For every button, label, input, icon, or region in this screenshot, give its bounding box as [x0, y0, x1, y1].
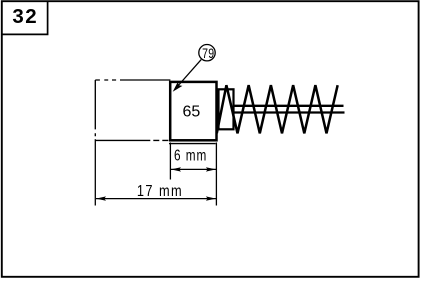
svg-text:32: 32: [12, 5, 38, 28]
figure number box: [2, 1, 48, 34]
spring wire upper line: [233, 105, 343, 107]
spring wire lower line: [233, 111, 344, 113]
dimension extension line left (17mm): [94, 139, 96, 205]
dimension extension line right (shared): [215, 143, 217, 206]
spring seat washer: [219, 89, 234, 129]
brush worn portion phantom outline: left edge: [94, 80, 96, 136]
brush body box (part 65): [170, 82, 216, 140]
svg-text:17 mm: 17 mm: [137, 183, 183, 201]
17mm dimension line: [96, 198, 216, 200]
6mm left arrowhead: [171, 167, 181, 171]
dimension extension line left (6mm): [169, 143, 171, 180]
6mm dimension line: [171, 168, 216, 170]
callout circle 79: [199, 45, 215, 61]
brush worn portion phantom outline: bottom edge: [95, 139, 168, 141]
svg-text:79: 79: [202, 46, 214, 62]
spring coil zigzag: [217, 85, 338, 133]
17mm label: [137, 183, 183, 201]
svg-text:65: 65: [183, 104, 201, 121]
holder edge line under box: [169, 143, 216, 145]
callout leader arrowhead: [173, 82, 183, 92]
17mm left arrowhead: [96, 196, 106, 200]
svg-text:6 mm: 6 mm: [174, 145, 207, 163]
17mm right arrowhead: [206, 196, 216, 200]
callout text 79: [202, 46, 214, 62]
callout leader line: [177, 60, 202, 88]
6mm label: [174, 145, 207, 163]
brush worn portion phantom outline: top edge: [95, 80, 170, 140]
6mm right arrowhead: [206, 167, 216, 171]
